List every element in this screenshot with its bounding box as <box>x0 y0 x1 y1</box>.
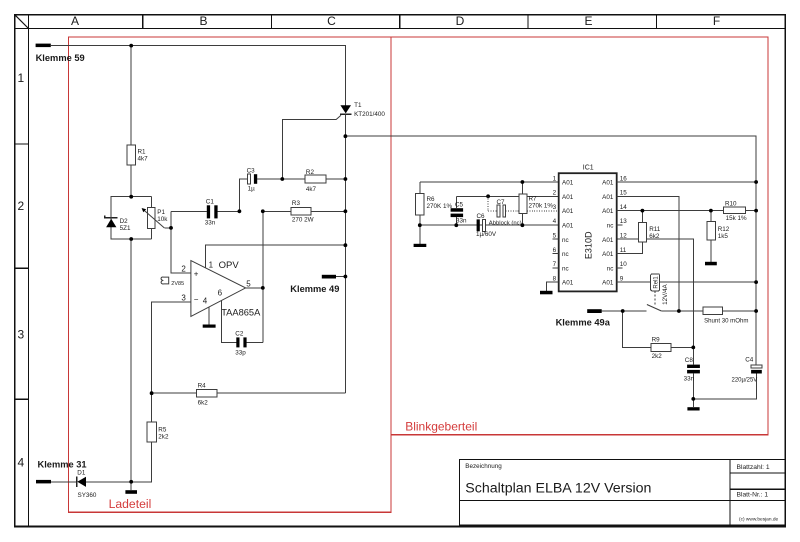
svg-text:9: 9 <box>620 275 624 282</box>
node junction R11 top <box>641 209 645 213</box>
svg-text:Shunt 30 mOhm: Shunt 30 mOhm <box>704 318 748 325</box>
terminal Klemme 31 <box>36 459 87 483</box>
svg-text:220µ/25V: 220µ/25V <box>732 378 758 384</box>
svg-text:10: 10 <box>620 261 628 268</box>
node junction R7 bottom <box>521 223 525 227</box>
node junction contact to pin15 <box>677 309 681 313</box>
svg-text:5: 5 <box>246 279 251 288</box>
svg-text:2V85: 2V85 <box>171 281 184 287</box>
resistor R3 <box>263 200 346 224</box>
svg-text:P1: P1 <box>157 209 165 216</box>
wire IC pin 12 line <box>617 239 694 364</box>
svg-text:1µ/60V: 1µ/60V <box>476 231 497 238</box>
svg-text:33n: 33n <box>205 220 216 227</box>
svg-text:R5: R5 <box>158 427 167 434</box>
Blinkgeberteil section box <box>391 37 768 435</box>
svg-text:6: 6 <box>218 289 223 298</box>
svg-text:6k2: 6k2 <box>649 233 660 240</box>
svg-text:R4: R4 <box>198 383 207 390</box>
svg-text:6: 6 <box>553 247 557 254</box>
svg-text:Abblock (nc): Abblock (nc) <box>489 221 522 227</box>
svg-text:15: 15 <box>620 190 628 197</box>
wire IC pin 1 line <box>420 181 559 183</box>
Ladeteil section box <box>69 37 392 512</box>
resistor Shunt <box>703 307 756 324</box>
capacitor C1 <box>171 198 239 226</box>
svg-text:8: 8 <box>553 275 557 282</box>
node junction R10 right <box>754 209 758 213</box>
svg-text:33p: 33p <box>235 350 246 357</box>
node junction R7 top <box>521 180 525 184</box>
wire IC pin 16 <box>617 181 756 183</box>
wire IC pin 14 line <box>617 210 756 212</box>
svg-text:12V/4A: 12V/4A <box>662 283 669 304</box>
node junction D2/P1 bottom <box>129 237 133 241</box>
svg-text:2k2: 2k2 <box>158 434 169 441</box>
node junction ground Blinkgeber <box>691 397 695 401</box>
svg-text:C3: C3 <box>247 168 256 175</box>
svg-text:(c) www.besjan.de: (c) www.besjan.de <box>739 517 779 523</box>
svg-text:R1: R1 <box>138 149 147 156</box>
capacitor C5 <box>451 196 467 225</box>
wire wiper vertical to opamp pin 2 <box>171 211 191 273</box>
svg-text:1: 1 <box>553 175 557 182</box>
svg-text:C1: C1 <box>206 198 215 205</box>
wire thyristor gate line <box>282 119 336 179</box>
wire bottom return to C4 <box>693 373 756 399</box>
svg-text:C8: C8 <box>685 357 694 364</box>
potentiometer P1 <box>142 208 171 229</box>
wire supply rail to right side <box>345 136 756 365</box>
ground Ladeteil <box>125 482 137 494</box>
svg-text:1: 1 <box>17 71 24 85</box>
resistor R4 <box>152 383 346 407</box>
ground R12 <box>705 262 717 266</box>
wire opamp pin 3 input <box>152 302 191 422</box>
svg-text:F: F <box>713 14 720 28</box>
svg-text:33n: 33n <box>456 217 467 224</box>
ground opamp pin 4 <box>203 307 216 328</box>
zener diode D2 <box>105 197 131 239</box>
svg-text:15k 1%: 15k 1% <box>726 215 747 222</box>
svg-text:Ladeteil: Ladeteil <box>109 497 152 511</box>
svg-text:R7: R7 <box>529 195 538 202</box>
node junction output <box>261 286 265 290</box>
svg-text:T1: T1 <box>354 102 362 109</box>
svg-text:A: A <box>71 14 79 28</box>
svg-text:14: 14 <box>620 204 628 211</box>
wire opamp output pin 5 <box>246 287 263 289</box>
svg-text:Schaltplan ELBA 12V Version: Schaltplan ELBA 12V Version <box>465 481 651 497</box>
resistor R6 <box>416 182 453 244</box>
resistor R2 <box>282 169 345 193</box>
terminal Klemme 59 <box>36 44 85 63</box>
wire feedback vertical output to C1 node <box>262 211 264 342</box>
node junction R3 left <box>261 209 265 213</box>
node junction rail to Blinkgeberteil <box>344 134 348 138</box>
svg-text:270K 1%: 270K 1% <box>427 203 453 210</box>
svg-text:A01: A01 <box>602 208 614 215</box>
svg-text:4: 4 <box>17 456 24 470</box>
capacitor C6 <box>476 213 497 238</box>
terminal Klemme 49a <box>556 309 647 327</box>
capacitor C7 (nc) <box>486 194 559 226</box>
svg-text:E310D: E310D <box>584 231 594 259</box>
node junction R1 top <box>129 44 133 48</box>
svg-text:C5: C5 <box>455 201 464 208</box>
node junction P1 wiper <box>169 226 173 230</box>
svg-text:A01: A01 <box>602 237 614 244</box>
title block <box>460 459 786 525</box>
svg-text:C4: C4 <box>745 357 754 364</box>
svg-text:nc: nc <box>562 251 569 258</box>
capacitor C3 <box>247 168 283 193</box>
diode D1 <box>77 470 131 499</box>
svg-text:nc: nc <box>607 223 614 230</box>
svg-text:2: 2 <box>17 199 24 213</box>
svg-text:13: 13 <box>620 218 628 225</box>
svg-text:3: 3 <box>181 293 186 302</box>
svg-text:A01: A01 <box>562 180 574 187</box>
capacitor C2 <box>235 330 262 356</box>
svg-text:R10: R10 <box>725 201 737 208</box>
svg-text:2k2: 2k2 <box>652 353 663 360</box>
terminal Klemme 49 <box>290 275 345 294</box>
wire R1 bottom lead <box>130 165 132 197</box>
svg-text:C7: C7 <box>497 199 506 206</box>
svg-text:A01: A01 <box>562 280 574 287</box>
relay coil Rel1 <box>651 274 669 306</box>
svg-text:270 2W: 270 2W <box>292 217 314 224</box>
svg-text:A01: A01 <box>602 180 614 187</box>
svg-text:11: 11 <box>620 247 627 254</box>
svg-text:−: − <box>194 295 199 304</box>
svg-text:C6: C6 <box>477 213 486 220</box>
node junction R9 right / C8 top <box>691 346 695 350</box>
svg-text:33n: 33n <box>684 376 695 383</box>
wire opamp pin 6 <box>221 301 236 343</box>
svg-text:16: 16 <box>620 175 628 182</box>
svg-text:OPV: OPV <box>219 260 240 271</box>
svg-text:R12: R12 <box>718 226 730 233</box>
svg-text:R6: R6 <box>427 196 436 203</box>
node junction pin1 rail <box>344 243 348 247</box>
svg-text:6k2: 6k2 <box>198 400 209 407</box>
svg-text:4: 4 <box>203 297 208 306</box>
op-amp U1 OPV <box>181 260 261 318</box>
node junction R6 bottom <box>418 223 422 227</box>
svg-text:KT201/400: KT201/400 <box>354 111 385 118</box>
capacitor C8 <box>684 357 700 399</box>
node junction Klemme 49 <box>344 275 348 279</box>
svg-text:nc: nc <box>607 265 614 272</box>
node junction pin 16 rail <box>754 180 758 184</box>
resistor R1 <box>127 145 148 165</box>
wire R1 top lead <box>130 46 132 146</box>
annotation 2V85 <box>161 277 184 287</box>
wire IC pin 2 line <box>456 195 558 197</box>
svg-text:2: 2 <box>181 265 186 274</box>
pin 6 stub <box>553 253 559 255</box>
resistor R7 <box>519 182 554 225</box>
svg-text:R3: R3 <box>292 200 301 207</box>
ground R6 <box>414 244 427 247</box>
svg-text:R11: R11 <box>649 226 661 233</box>
svg-text:C: C <box>327 14 336 28</box>
svg-text:nc: nc <box>562 237 569 244</box>
svg-text:Klemme 59: Klemme 59 <box>36 53 85 63</box>
svg-text:1: 1 <box>209 260 214 269</box>
svg-text:IC1: IC1 <box>583 165 594 172</box>
svg-text:10k: 10k <box>157 216 168 223</box>
wire IC pin 4 line <box>420 224 559 226</box>
wire top rail Klemme 59 to T1 <box>51 46 346 106</box>
pin 13 stub <box>617 224 623 226</box>
node junction R2 right <box>344 177 348 181</box>
svg-text:A01: A01 <box>602 280 614 287</box>
wire main left rail down to Klemme 31 line <box>130 239 132 482</box>
svg-text:R2: R2 <box>306 169 315 176</box>
svg-text:SY360: SY360 <box>78 492 97 499</box>
svg-text:A01: A01 <box>562 208 574 215</box>
svg-text:1µ: 1µ <box>248 186 256 193</box>
node junction C3 branch <box>238 209 242 213</box>
svg-text:Klemme 31: Klemme 31 <box>38 459 87 469</box>
thyristor T1 <box>340 102 386 118</box>
resistor R9 <box>623 311 694 360</box>
svg-text:5: 5 <box>553 233 557 240</box>
node junction R4 left <box>150 391 154 395</box>
svg-text:3: 3 <box>553 204 557 211</box>
svg-text:12: 12 <box>620 233 628 240</box>
svg-text:Blattzahl: 1: Blattzahl: 1 <box>737 464 770 471</box>
resistor R12 <box>707 211 730 262</box>
svg-text:Rel1: Rel1 <box>653 276 659 289</box>
pin 7 stub <box>553 267 559 269</box>
wire T1 cathode rail down <box>344 114 346 393</box>
svg-text:A01: A01 <box>562 223 574 230</box>
node junction C5 bottom <box>454 223 458 227</box>
node junction R3 right <box>344 209 348 213</box>
svg-text:D2: D2 <box>120 218 129 225</box>
wire IC pin 11 to R11 <box>617 242 643 253</box>
pin 5 stub <box>553 238 559 240</box>
svg-text:R9: R9 <box>652 337 661 344</box>
pin 10 stub <box>617 267 623 269</box>
svg-text:4k7: 4k7 <box>138 156 149 163</box>
svg-text:A01: A01 <box>602 194 614 201</box>
svg-text:Blatt-Nr.: 1: Blatt-Nr.: 1 <box>737 492 769 499</box>
capacitor C4 <box>732 357 762 384</box>
svg-text:2: 2 <box>553 190 557 197</box>
svg-text:Klemme 49a: Klemme 49a <box>556 318 611 328</box>
svg-text:3: 3 <box>17 327 24 341</box>
svg-text:D: D <box>456 14 465 28</box>
relay contact <box>647 305 703 312</box>
resistor R11 <box>638 211 660 243</box>
svg-text:A01: A01 <box>562 194 574 201</box>
svg-text:Blinkgeberteil: Blinkgeberteil <box>405 419 477 433</box>
wire IC pin 8 to ground <box>547 282 559 291</box>
svg-text:B: B <box>199 14 207 28</box>
ground IC pin 8 <box>540 291 553 295</box>
ground Blinkgeber <box>687 399 699 411</box>
resistor R10 <box>724 201 747 223</box>
wire IC pin 9 line <box>617 281 756 283</box>
svg-text:D1: D1 <box>77 470 86 477</box>
node junction pin 9 rail <box>754 280 758 284</box>
node junction R9 branch <box>621 309 625 313</box>
node junction gate / C3 / R2 <box>280 177 284 181</box>
svg-text:270k 1%: 270k 1% <box>529 202 554 209</box>
svg-text:E: E <box>584 14 592 28</box>
svg-text:5Z1: 5Z1 <box>120 225 131 232</box>
svg-text:4k7: 4k7 <box>306 186 317 193</box>
svg-text:7: 7 <box>553 261 557 268</box>
svg-text:1k5: 1k5 <box>718 233 729 240</box>
svg-text:A01: A01 <box>602 251 614 258</box>
svg-text:C2: C2 <box>235 330 244 337</box>
svg-text:+: + <box>194 270 199 279</box>
node junction shunt right / C4 top <box>754 309 758 313</box>
svg-text:TAA865A: TAA865A <box>221 308 261 318</box>
wire C3 left lead <box>239 179 247 211</box>
node junction ground Ladeteil <box>129 480 133 484</box>
svg-text:4: 4 <box>553 218 557 225</box>
svg-text:nc: nc <box>562 265 569 272</box>
svg-text:Klemme 49: Klemme 49 <box>290 284 339 294</box>
IC U1 E310D <box>553 165 628 292</box>
node junction D2/P1 top <box>129 195 133 199</box>
resistor R5 <box>131 422 169 482</box>
node junction R12 top <box>709 209 713 213</box>
wire D2/P1 parallel loop <box>111 197 151 239</box>
svg-text:Bezeichnung: Bezeichnung <box>465 463 502 470</box>
wire opamp pin 1 to feedback rail <box>206 245 346 268</box>
wire IC pin 15 down <box>617 196 679 311</box>
